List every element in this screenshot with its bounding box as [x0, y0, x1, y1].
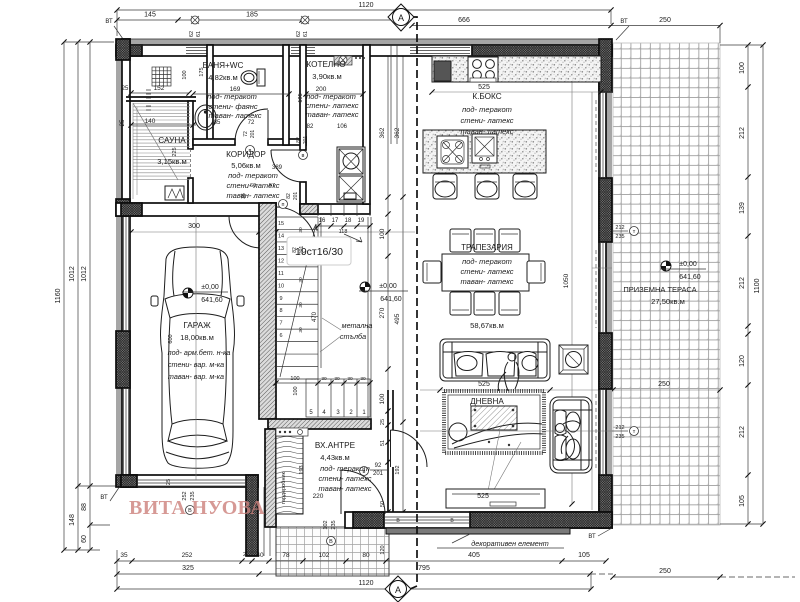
svg-text:К.БОКС: К.БОКС	[472, 92, 501, 101]
svg-text:78: 78	[282, 552, 290, 559]
sauna walls	[126, 97, 196, 203]
svg-text:139: 139	[739, 202, 746, 214]
room labels	[120, 60, 697, 500]
svg-text:ВХ.АНТРЕ: ВХ.АНТРЕ	[315, 441, 356, 450]
svg-text:1012: 1012	[81, 266, 88, 282]
corridor arc SE	[276, 207, 316, 247]
svg-text:105: 105	[739, 495, 746, 507]
svg-text:35: 35	[241, 193, 247, 199]
svg-text:525: 525	[478, 84, 490, 91]
svg-text:8: 8	[279, 308, 282, 314]
stair bottom run 1-5	[306, 379, 370, 417]
svg-text:±0,00: ±0,00	[201, 284, 219, 291]
stairs level marker	[360, 282, 370, 292]
svg-text:ВТ: ВТ	[588, 534, 596, 540]
boiler east wall	[363, 45, 370, 204]
svg-text:стълба: стълба	[340, 332, 366, 341]
porch west wall	[246, 475, 258, 556]
svg-text:1100: 1100	[754, 278, 761, 293]
svg-text:82: 82	[307, 124, 314, 130]
svg-text:1160: 1160	[55, 288, 62, 303]
svg-text:105: 105	[578, 552, 590, 559]
svg-text:30: 30	[298, 302, 304, 308]
svg-text:п: п	[282, 202, 285, 208]
svg-text:641,60: 641,60	[380, 296, 402, 303]
dining chairs	[423, 229, 545, 315]
right exterior wall	[599, 39, 612, 528]
svg-text:92: 92	[375, 463, 382, 469]
top dim 666 / 250	[412, 25, 720, 27]
svg-text:стени- латекс: стени- латекс	[460, 116, 513, 125]
svg-text:1050: 1050	[563, 273, 570, 288]
svg-text:120: 120	[739, 355, 746, 367]
svg-text:525: 525	[477, 493, 489, 500]
svg-text:декоративен елемент: декоративен елемент	[471, 539, 548, 548]
bottom dims	[117, 560, 606, 562]
svg-text:таван- латекс: таван- латекс	[209, 111, 262, 120]
svg-text:795: 795	[418, 565, 430, 572]
terrace dim 250 bottom	[613, 576, 720, 578]
svg-text:250: 250	[659, 17, 671, 24]
svg-text:18,00кв.м: 18,00кв.м	[180, 333, 214, 342]
sofa 2 (right)	[550, 397, 592, 473]
svg-text:12: 12	[278, 258, 284, 264]
svg-text:61: 61	[196, 31, 202, 37]
kitchen counter top	[432, 56, 601, 82]
top dim 145 185	[117, 19, 402, 21]
svg-text:641,60: 641,60	[201, 297, 223, 304]
svg-text:стени- вар. м-ка: стени- вар. м-ка	[168, 360, 224, 369]
svg-text:1012: 1012	[69, 266, 76, 282]
svg-text:КОТЕЛНО: КОТЕЛНО	[306, 60, 345, 69]
svg-text:3,15кв.м: 3,15кв.м	[157, 157, 186, 166]
svg-text:1120: 1120	[358, 580, 373, 587]
island hob	[437, 136, 468, 168]
section marker A top	[388, 4, 414, 31]
svg-text:60: 60	[81, 535, 88, 543]
svg-text:под- теракот: под- теракот	[320, 464, 370, 473]
bath east wall	[283, 45, 289, 145]
svg-text:600: 600	[168, 334, 174, 343]
svg-text:ВИТА НУОВА: ВИТА НУОВА	[129, 497, 265, 519]
svg-text:235: 235	[331, 520, 337, 529]
svg-text:82: 82	[286, 193, 292, 199]
leader lines to 525 label	[488, 430, 521, 493]
svg-text:120: 120	[380, 545, 386, 554]
svg-text:525: 525	[478, 381, 490, 388]
svg-text:ВТ: ВТ	[620, 19, 628, 25]
svg-text:201: 201	[303, 136, 309, 145]
svg-text:1120: 1120	[358, 2, 373, 9]
svg-text:ДНЕВНА: ДНЕВНА	[470, 397, 504, 406]
cooktop	[468, 57, 498, 82]
svg-text:57: 57	[269, 183, 275, 189]
bottom exterior wall (living room)	[345, 512, 612, 528]
svg-text:362: 362	[379, 127, 386, 138]
svg-text:201: 201	[293, 192, 299, 201]
fireplace	[559, 345, 588, 374]
svg-text:100: 100	[293, 386, 299, 395]
svg-text:A: A	[398, 13, 404, 23]
svg-text:13: 13	[278, 246, 284, 252]
svg-text:КОРИДОР: КОРИДОР	[226, 150, 266, 159]
person on sofa	[498, 353, 519, 410]
coat hooks	[276, 428, 308, 436]
svg-text:100: 100	[182, 70, 188, 79]
svg-text:30: 30	[334, 376, 340, 382]
svg-text:235: 235	[615, 434, 624, 440]
boiler door arc	[271, 150, 303, 182]
terrace tiles (ground floor terrace)	[613, 43, 720, 525]
svg-text:88: 88	[81, 503, 88, 511]
stairwell west wall	[259, 203, 276, 419]
svg-text:11: 11	[278, 271, 284, 277]
svg-text:9: 9	[279, 296, 282, 302]
svg-text:72: 72	[243, 131, 249, 137]
svg-text:100: 100	[379, 228, 386, 239]
svg-text:212: 212	[739, 127, 746, 139]
corridor sink oval	[0, 0, 1, 1]
svg-text:16: 16	[319, 218, 326, 224]
svg-text:ТРАПЕЗАРИЯ: ТРАПЕЗАРИЯ	[461, 243, 513, 252]
section marker A bottom	[385, 576, 411, 602]
bath tub oval	[195, 105, 216, 130]
svg-text:18: 18	[345, 218, 352, 224]
rug	[444, 391, 544, 453]
svg-text:201: 201	[250, 130, 256, 139]
svg-text:193: 193	[299, 465, 305, 474]
svg-text:в: в	[302, 153, 305, 159]
svg-text:250: 250	[658, 381, 670, 388]
svg-text:ПРИЗЕМНА ТЕРАСА: ПРИЗЕМНА ТЕРАСА	[623, 285, 696, 294]
svg-text:100: 100	[739, 62, 746, 74]
svg-text:стени- фаянс: стени- фаянс	[208, 102, 258, 111]
svg-text:118: 118	[339, 229, 348, 235]
window dash marks right wall	[595, 100, 597, 470]
sauna heater	[165, 186, 184, 200]
terrace 212/235 labels	[612, 230, 628, 232]
svg-text:82: 82	[292, 247, 298, 253]
island sink	[472, 134, 497, 163]
svg-text:192: 192	[395, 465, 401, 474]
decorative element strip	[386, 528, 570, 534]
svg-text:таван- латекс: таван- латекс	[461, 277, 514, 286]
svg-text:25: 25	[166, 479, 172, 485]
top dim 1120	[117, 9, 611, 11]
svg-text:66: 66	[250, 183, 256, 189]
rug curves	[452, 423, 543, 448]
coffee table glass	[471, 406, 517, 430]
svg-text:362: 362	[394, 127, 401, 138]
svg-text:30: 30	[360, 376, 366, 382]
svg-text:212: 212	[739, 426, 746, 438]
svg-text:таван- латекс: таван- латекс	[319, 484, 372, 493]
svg-text:25: 25	[120, 119, 126, 126]
svg-text:гардеробник: гардеробник	[281, 471, 287, 504]
svg-text:270: 270	[379, 307, 386, 318]
left exterior wall	[116, 39, 137, 487]
boiler west wall	[300, 45, 306, 150]
svg-text:145: 145	[144, 12, 156, 19]
19ct16/30 label box	[287, 237, 351, 265]
boiler room vent block	[334, 56, 365, 65]
svg-text:4,82кв.м: 4,82кв.м	[208, 73, 237, 82]
right wall inner face line	[591, 92, 593, 510]
svg-text:таван- латекс: таван- латекс	[306, 110, 359, 119]
svg-text:19: 19	[358, 218, 365, 224]
stair numbers 6-15	[278, 221, 304, 339]
boiler south wall	[300, 204, 370, 214]
svg-text:212: 212	[739, 277, 746, 289]
svg-text:В: В	[329, 539, 333, 545]
svg-text:10: 10	[278, 283, 284, 289]
svg-text:САУНА: САУНА	[158, 136, 186, 145]
garage-corridor wall	[116, 203, 276, 248]
svg-text:под- теракот: под- теракот	[207, 92, 257, 101]
svg-text:ВТ: ВТ	[100, 495, 108, 501]
stair top run 16-19	[318, 203, 370, 216]
svg-text:201: 201	[373, 471, 384, 477]
svg-text:201: 201	[299, 246, 305, 255]
svg-text:±0,00: ±0,00	[379, 283, 397, 290]
svg-text:51: 51	[380, 440, 386, 446]
svg-text:405: 405	[468, 552, 480, 559]
svg-text:185: 185	[246, 12, 258, 19]
svg-text:195: 195	[298, 93, 304, 102]
toilet	[241, 69, 265, 86]
svg-text:641,60: 641,60	[679, 274, 701, 281]
svg-text:102: 102	[323, 520, 329, 529]
svg-text:252: 252	[182, 552, 193, 559]
bath door arc	[235, 109, 268, 142]
towel marks	[146, 90, 151, 110]
svg-text:30: 30	[298, 227, 304, 233]
svg-text:27,50кв.м: 27,50кв.м	[651, 297, 685, 306]
left dims 1160 / 1012 / 148 etc	[63, 42, 65, 550]
terrace level marker	[661, 261, 671, 271]
svg-text:225: 225	[172, 147, 178, 156]
dining table	[442, 254, 529, 291]
svg-text:666: 666	[458, 17, 470, 24]
svg-text:148: 148	[69, 514, 76, 526]
section line A-A	[410, 17, 417, 589]
boiler room washer/dryer	[337, 147, 365, 202]
top exterior wall	[116, 39, 612, 56]
svg-text:6: 6	[279, 333, 282, 339]
sauna benches	[133, 103, 190, 199]
svg-text:82: 82	[296, 137, 302, 143]
person on sofa2	[556, 421, 581, 461]
entrance east wall	[388, 390, 427, 512]
svg-text:под- арм.бет. н-ка: под- арм.бет. н-ка	[168, 348, 231, 357]
svg-text:стени- латекс: стени- латекс	[318, 474, 371, 483]
svg-text:4,43кв.м: 4,43кв.м	[320, 453, 349, 462]
svg-text:62: 62	[296, 31, 302, 37]
svg-text:17: 17	[332, 218, 339, 224]
car in garage	[151, 247, 244, 468]
svg-text:58,67кв.м: 58,67кв.м	[470, 321, 504, 330]
svg-text:таван- вар. м-ка: таван- вар. м-ка	[168, 372, 224, 381]
stairwell south wall	[268, 419, 371, 429]
svg-text:25: 25	[380, 419, 386, 425]
svg-text:250: 250	[659, 568, 671, 575]
entrance hall west wall	[265, 429, 276, 527]
svg-text:под- теракот: под- теракот	[306, 92, 356, 101]
svg-text:3,90кв.м: 3,90кв.м	[312, 72, 341, 81]
svg-text:325: 325	[182, 565, 194, 572]
right dims 100/212/139/212/120/212/105 and 1100	[747, 45, 749, 524]
svg-text:25: 25	[122, 86, 129, 92]
svg-text:80: 80	[362, 552, 370, 559]
svg-text:100: 100	[290, 376, 299, 382]
svg-text:ВТ: ВТ	[105, 19, 113, 25]
svg-text:300: 300	[188, 223, 200, 230]
svg-text:14: 14	[278, 233, 284, 239]
svg-text:62: 62	[189, 31, 195, 37]
svg-text:A: A	[395, 585, 401, 595]
svg-text:30: 30	[347, 376, 353, 382]
bar stools	[433, 174, 537, 199]
garage door arc	[229, 216, 261, 248]
svg-text:7: 7	[279, 321, 282, 327]
garage bottom wall / garage door	[121, 475, 258, 515]
svg-text:85: 85	[214, 120, 221, 126]
svg-text:102: 102	[319, 552, 330, 559]
bath south wall	[193, 139, 235, 145]
svg-text:212: 212	[615, 225, 624, 231]
svg-text:±0,00: ±0,00	[679, 261, 697, 268]
svg-text:35: 35	[120, 552, 128, 559]
svg-text:470: 470	[312, 311, 318, 322]
kitchen column lines	[391, 45, 397, 144]
svg-text:БАНЯ+WC: БАНЯ+WC	[203, 61, 244, 70]
svg-text:106: 106	[337, 124, 348, 130]
staircase vertical run	[276, 217, 321, 379]
svg-text:61: 61	[303, 31, 309, 37]
garage axis line	[195, 216, 197, 480]
svg-text:под- теракот: под- теракот	[462, 105, 512, 114]
svg-text:175: 175	[199, 67, 205, 76]
stairwell east edge	[368, 217, 371, 419]
svg-text:220: 220	[313, 493, 324, 500]
svg-text:метална: метална	[342, 321, 373, 330]
svg-text:140: 140	[145, 118, 156, 125]
stair up line	[280, 224, 317, 377]
inner dimension chains	[128, 42, 574, 554]
svg-text:таван- латекс: таван- латекс	[227, 191, 280, 200]
svg-text:495: 495	[394, 313, 401, 324]
svg-text:стени- латекс: стени- латекс	[460, 267, 513, 276]
svg-text:235: 235	[615, 234, 624, 240]
kitchen island	[423, 130, 546, 173]
entrance porch tiles	[276, 527, 389, 576]
svg-text:под- теракот: под- теракот	[228, 171, 278, 180]
terrace dim 250 mid	[420, 389, 720, 391]
entry door	[341, 470, 385, 514]
svg-text:под- теракот: под- теракот	[462, 257, 512, 266]
svg-text:72: 72	[248, 120, 255, 126]
svg-text:15: 15	[278, 221, 284, 227]
wardrobe closet	[276, 436, 303, 514]
svg-text:5,06кв.м: 5,06кв.м	[231, 161, 260, 170]
kitchen sink dark	[434, 61, 451, 81]
tv console	[446, 489, 545, 508]
svg-text:таван- латекс: таван- латекс	[461, 127, 514, 136]
garage level marker	[183, 288, 193, 298]
svg-text:212: 212	[615, 425, 624, 431]
svg-text:30: 30	[321, 376, 327, 382]
porch steps	[258, 487, 276, 556]
svg-text:стени- латекс: стени- латекс	[305, 101, 358, 110]
svg-text:152: 152	[154, 85, 165, 92]
sofa large (3 seat)	[440, 339, 550, 381]
svg-text:30: 30	[298, 327, 304, 333]
bath west wall	[207, 45, 213, 140]
svg-text:100: 100	[379, 393, 386, 404]
shower head	[152, 67, 171, 86]
svg-text:ГАРАЖ: ГАРАЖ	[183, 321, 211, 330]
